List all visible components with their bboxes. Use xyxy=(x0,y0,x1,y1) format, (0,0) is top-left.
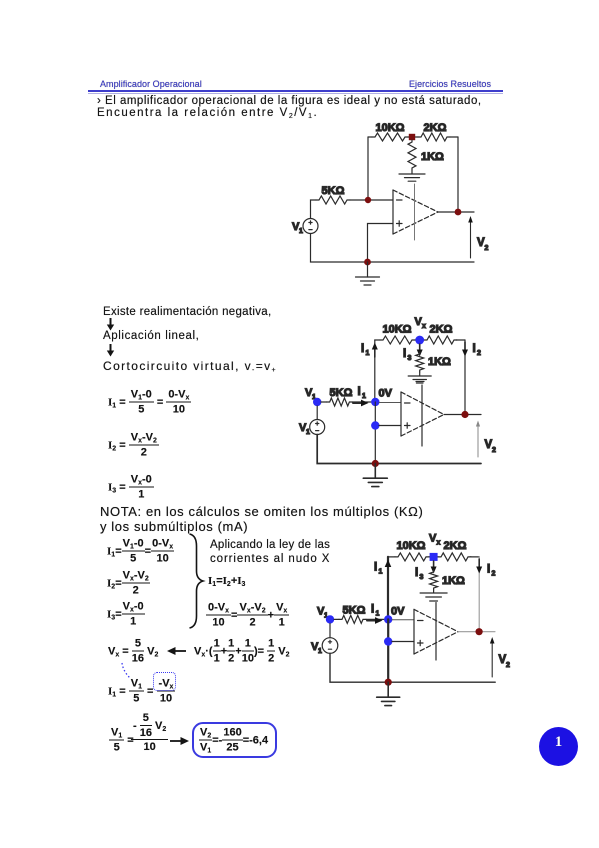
svg-text:2: 2 xyxy=(492,447,496,454)
wire right branch C1 xyxy=(457,137,459,212)
power line through op-amp C3 xyxy=(435,603,437,661)
wire right branch C3 (gray) xyxy=(478,557,480,632)
arrow V2 C2 xyxy=(476,421,480,458)
wire V1node to 5K C3 xyxy=(334,618,339,620)
svg-text:1: 1 xyxy=(299,228,303,235)
svg-text:I: I xyxy=(371,604,374,616)
wire plus input C1 xyxy=(368,224,394,263)
label V1 C1 xyxy=(292,221,303,235)
node plus input C2 (blue) xyxy=(371,421,379,429)
wire source-bottom / bottom rail C2 xyxy=(317,435,481,464)
arrow I3 down C2 xyxy=(417,344,423,357)
resistor 10K C2 xyxy=(380,336,415,344)
label 0V C3 xyxy=(391,606,405,618)
wire plus input C3 xyxy=(392,641,414,643)
node output C2 xyxy=(461,411,468,418)
label V1 source C2 xyxy=(299,422,310,436)
svg-text:0V: 0V xyxy=(379,388,393,400)
svg-text:1KΩ: 1KΩ xyxy=(442,575,465,587)
plus pin label C3 xyxy=(418,640,424,645)
svg-text:3: 3 xyxy=(420,574,424,581)
wire top rail C2 xyxy=(375,339,465,341)
resistor 2K C3 xyxy=(438,553,471,561)
svg-text:I: I xyxy=(361,343,364,355)
source V1 C3 xyxy=(322,638,338,654)
svg-text:10KΩ: 10KΩ xyxy=(397,540,426,552)
node X C1 (square junction) xyxy=(409,134,415,140)
wire left branch C2 xyxy=(374,340,376,402)
wire 5K to inverting node C1 xyxy=(350,199,393,201)
wire left branch C3 (thick) xyxy=(387,557,389,620)
svg-text:2: 2 xyxy=(506,662,510,669)
svg-text:1KΩ: 1KΩ xyxy=(421,151,444,163)
label Vx C3 xyxy=(429,533,441,547)
label Vx C2 xyxy=(415,316,427,330)
node bottom junction C3 xyxy=(385,679,392,686)
arrow I1 direction C2 xyxy=(353,400,369,407)
svg-text:I: I xyxy=(403,348,406,360)
label I3 C3 xyxy=(415,567,424,581)
label 2K C1 xyxy=(424,122,447,134)
wire right branch C2 xyxy=(464,340,466,415)
label 5K C1 xyxy=(322,185,345,197)
source V1 C2 xyxy=(310,420,325,435)
wire output C1 xyxy=(438,211,474,213)
ground bottom C1 xyxy=(356,262,380,285)
svg-text:0V: 0V xyxy=(391,606,405,618)
label V1 node C2 xyxy=(305,387,316,401)
label I1 at 5K C3 xyxy=(371,604,380,618)
arrow V2 C1 xyxy=(468,216,473,258)
label 10K C3 xyxy=(397,540,426,552)
label 1K C1 xyxy=(421,151,444,163)
minus pin label C3 xyxy=(418,620,424,622)
svg-text:I: I xyxy=(374,562,377,574)
resistor 5K C3 xyxy=(339,615,366,623)
wire 5K to node C2 xyxy=(352,401,371,403)
op-amp U1 C1 xyxy=(393,190,438,234)
svg-text:1: 1 xyxy=(306,429,310,436)
plus pin label C1 xyxy=(397,221,403,226)
arrow I2 down C2 xyxy=(462,342,468,357)
label 1K C3 xyxy=(442,575,465,587)
label 5K C3 xyxy=(343,605,366,617)
plus pin label C2 xyxy=(405,423,411,428)
svg-text:10KΩ: 10KΩ xyxy=(376,122,405,134)
node V1-top C3 (blue) xyxy=(326,615,334,623)
resistor 10K (C1 feedback) xyxy=(372,133,408,141)
node bottom junction C1 xyxy=(364,259,371,266)
arrow V2 C3 xyxy=(490,637,495,677)
wire top rail C3 xyxy=(388,556,479,558)
ground bottom C2 xyxy=(363,464,387,487)
svg-text:1: 1 xyxy=(379,569,383,576)
source V1 C1 xyxy=(303,219,318,234)
arrow I1 direction C3 xyxy=(367,617,383,624)
label 2K C2 xyxy=(430,324,453,336)
svg-text:I: I xyxy=(487,564,490,576)
label I1 C3 (left branch) xyxy=(374,562,383,576)
ground bottom C3 xyxy=(377,682,400,705)
label I2 C2 xyxy=(473,343,482,357)
svg-text:1: 1 xyxy=(318,648,322,655)
node inverting input C1 xyxy=(365,197,371,203)
arrow I2 down C3 xyxy=(476,559,482,574)
label I3 C2 xyxy=(403,348,412,362)
svg-text:5KΩ: 5KΩ xyxy=(343,605,366,617)
svg-text:2KΩ: 2KΩ xyxy=(430,324,453,336)
node plus input C3 (blue) xyxy=(384,637,392,645)
svg-text:5KΩ: 5KΩ xyxy=(330,387,353,399)
svg-text:I: I xyxy=(358,386,361,398)
label I1 at 5K C2 xyxy=(358,386,367,400)
label 5K C2 xyxy=(330,387,353,399)
svg-text:3: 3 xyxy=(408,355,412,362)
wire V1node to 5K C2 xyxy=(321,401,327,403)
minus pin label C1 xyxy=(397,199,403,201)
label I1 C2 (left branch) xyxy=(361,343,370,357)
wire V1node-to-source C2 xyxy=(316,406,318,420)
resistor 5K C1 xyxy=(316,196,350,204)
wire source-bottom / bottom rail C1 xyxy=(311,234,475,263)
svg-text:2: 2 xyxy=(477,350,481,357)
resistor 1K (C1 vertical) xyxy=(408,140,416,170)
power line through op-amp C2 xyxy=(416,382,424,447)
wire vertical inverting-to-bottom C3 (thick) xyxy=(387,619,389,682)
svg-text:1: 1 xyxy=(366,350,370,357)
wire output C3 (gray) xyxy=(458,631,495,633)
node output C3 xyxy=(476,628,483,635)
svg-text:1: 1 xyxy=(362,393,366,400)
label 10K C1 xyxy=(376,122,405,134)
node inverting C3 (blue) xyxy=(384,615,392,623)
arrow I1 up C3 xyxy=(385,560,392,577)
label V1 source C3 xyxy=(311,641,322,655)
node inverting C2 (blue) xyxy=(371,398,379,406)
node output C1 xyxy=(455,209,462,216)
label I2 C3 xyxy=(487,564,496,578)
ground under 1K C3 xyxy=(420,590,447,601)
wire output C2 xyxy=(444,414,481,416)
resistor 1K C2 vertical xyxy=(416,352,424,372)
wire left branch C1 xyxy=(367,137,369,200)
node Vx C3 (blue square) xyxy=(430,553,438,561)
node bottom junction C2 xyxy=(372,460,379,467)
power line through op-amp C1 xyxy=(414,184,416,240)
wire plus input C2 xyxy=(379,425,401,427)
resistor 5K C2 xyxy=(327,398,353,406)
resistor 2K C2 xyxy=(424,336,457,344)
label 1K C2 xyxy=(428,356,451,368)
svg-text:5KΩ: 5KΩ xyxy=(322,185,345,197)
ground under 1K C2 xyxy=(408,372,431,383)
resistor 10K C3 xyxy=(395,553,429,561)
wire 5K to node C3 xyxy=(366,618,384,620)
label V1 node C3 xyxy=(317,606,328,620)
node Vx C2 (blue) xyxy=(415,336,424,345)
label 2K C3 xyxy=(444,540,467,552)
wire vertical inverting-to-bottom C2 xyxy=(374,402,376,464)
wire source-bottom / bottom rail C3 xyxy=(330,653,495,682)
resistor 2K (C1) xyxy=(418,133,450,141)
svg-text:1: 1 xyxy=(376,611,380,618)
svg-text:2KΩ: 2KΩ xyxy=(424,122,447,134)
op-amp U1 C3 xyxy=(414,609,458,654)
wire inverting to opamp C3 xyxy=(392,619,414,621)
svg-text:1KΩ: 1KΩ xyxy=(428,356,451,368)
label V2 C2 xyxy=(485,439,497,454)
arrow I1 up C2 xyxy=(372,343,378,358)
label 10K C2 xyxy=(383,324,412,336)
label V2 C3 xyxy=(499,654,511,669)
svg-text:x: x xyxy=(437,540,441,547)
svg-text:2: 2 xyxy=(485,245,489,252)
ground under 1K C1 xyxy=(399,170,425,181)
wire top-left rail C1 xyxy=(368,136,458,138)
wire V1node-to-source C3 xyxy=(329,624,331,638)
arrow I3 down C3 xyxy=(431,561,437,574)
op-amp U1 C2 xyxy=(401,392,444,436)
minus pin label C2 xyxy=(405,402,411,404)
svg-text:x: x xyxy=(422,323,426,330)
label 0V C2 xyxy=(379,388,393,400)
svg-text:I: I xyxy=(415,567,418,579)
svg-text:I: I xyxy=(473,343,476,355)
svg-text:2KΩ: 2KΩ xyxy=(444,540,467,552)
wire source-top to 5K C1 xyxy=(311,200,317,219)
node V1-top C2 (blue) xyxy=(313,398,321,406)
svg-text:10KΩ: 10KΩ xyxy=(383,324,412,336)
wire inverting to opamp C2 xyxy=(379,402,401,404)
resistor 1K C3 vertical xyxy=(430,570,438,590)
svg-text:2: 2 xyxy=(492,571,496,578)
label V2 C1 xyxy=(477,237,489,252)
